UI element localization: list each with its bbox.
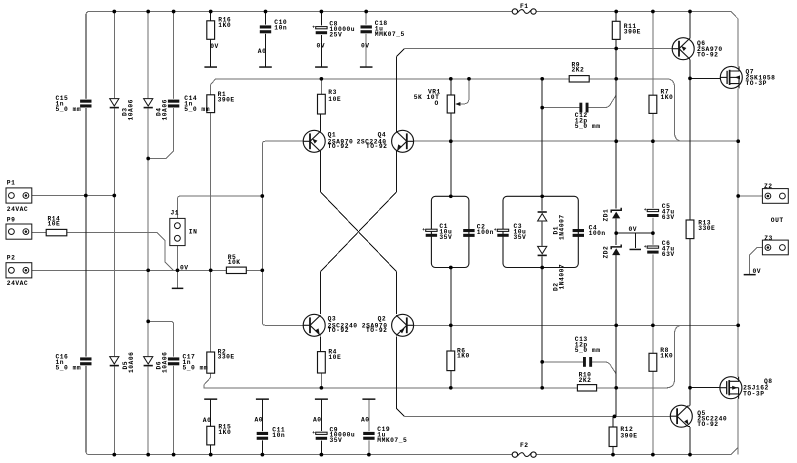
svg-text:100n: 100n	[477, 229, 494, 236]
svg-text:1K0: 1K0	[218, 429, 231, 436]
svg-text:R3: R3	[328, 89, 337, 96]
svg-text:390E: 390E	[624, 28, 641, 35]
svg-text:IN: IN	[189, 229, 198, 236]
svg-text:+: +	[312, 25, 315, 30]
svg-text:ZD1: ZD1	[603, 209, 610, 222]
svg-text:0V: 0V	[317, 42, 326, 49]
svg-text:0V: 0V	[180, 264, 189, 271]
svg-text:A0: A0	[258, 48, 267, 55]
svg-text:5_0 mm: 5_0 mm	[575, 347, 601, 354]
svg-text:+: +	[422, 228, 425, 233]
svg-text:+: +	[494, 228, 497, 233]
svg-text:J1: J1	[171, 209, 180, 216]
svg-text:ZD2: ZD2	[603, 246, 610, 259]
svg-text:10K: 10K	[228, 259, 241, 266]
svg-text:10A06: 10A06	[128, 352, 135, 373]
svg-text:35V: 35V	[330, 437, 343, 444]
svg-text:2K2: 2K2	[572, 67, 585, 74]
svg-text:A0: A0	[313, 416, 322, 423]
svg-text:330E: 330E	[698, 225, 715, 232]
svg-text:TO-92: TO-92	[328, 327, 349, 334]
svg-text:330E: 330E	[218, 354, 235, 361]
svg-text:O: O	[435, 100, 439, 107]
svg-text:1K0: 1K0	[661, 94, 674, 101]
svg-text:TO-92: TO-92	[328, 143, 349, 150]
svg-text:P2: P2	[7, 255, 16, 262]
svg-text:OUT: OUT	[771, 217, 784, 224]
svg-text:MMK07_5: MMK07_5	[375, 31, 405, 38]
svg-text:1K0: 1K0	[218, 22, 231, 29]
svg-text:1K0: 1K0	[457, 353, 470, 360]
svg-text:390E: 390E	[218, 97, 235, 104]
svg-text:10A06: 10A06	[162, 99, 169, 120]
svg-text:10E: 10E	[328, 354, 341, 361]
svg-text:10A06: 10A06	[162, 352, 169, 373]
svg-text:Z2: Z2	[764, 183, 773, 190]
svg-text:P1: P1	[7, 180, 16, 187]
svg-text:Z3: Z3	[764, 235, 773, 242]
svg-text:10A06: 10A06	[128, 99, 135, 120]
svg-text:5_0 mm: 5_0 mm	[56, 364, 82, 371]
svg-text:24VAC: 24VAC	[7, 206, 28, 213]
svg-text:1N4007: 1N4007	[559, 214, 566, 240]
svg-text:A0: A0	[203, 417, 212, 424]
svg-text:35V: 35V	[514, 234, 527, 241]
svg-text:1N4007: 1N4007	[559, 264, 566, 290]
svg-text:+: +	[644, 208, 647, 213]
svg-text:25V: 25V	[329, 32, 342, 39]
svg-text:A0: A0	[361, 416, 370, 423]
svg-text:+: +	[644, 245, 647, 250]
svg-text:10n: 10n	[274, 24, 287, 31]
svg-text:TO-92: TO-92	[697, 421, 718, 428]
svg-text:5_0 mm: 5_0 mm	[56, 106, 82, 113]
svg-text:100n: 100n	[589, 230, 606, 237]
svg-text:390E: 390E	[620, 432, 637, 439]
svg-text:5_0 mm: 5_0 mm	[575, 123, 601, 130]
svg-text:10n: 10n	[272, 432, 285, 439]
svg-text:P9: P9	[7, 216, 16, 223]
svg-text:TO-3P: TO-3P	[743, 390, 764, 397]
svg-text:5_0 mm: 5_0 mm	[183, 364, 209, 371]
svg-text:MMK07_5: MMK07_5	[377, 437, 407, 444]
svg-text:0V: 0V	[753, 268, 762, 275]
svg-text:TO-92: TO-92	[697, 52, 718, 59]
svg-text:TO-3P: TO-3P	[746, 80, 767, 87]
svg-text:35V: 35V	[439, 234, 452, 241]
svg-text:TO-92: TO-92	[366, 327, 387, 334]
svg-text:63V: 63V	[662, 214, 675, 221]
svg-text:0V: 0V	[629, 226, 638, 233]
svg-text:24VAC: 24VAC	[7, 280, 28, 287]
svg-text:10E: 10E	[328, 96, 341, 103]
svg-text:F2: F2	[520, 442, 529, 449]
svg-text:TO-92: TO-92	[366, 143, 387, 150]
svg-text:10E: 10E	[48, 221, 61, 228]
svg-text:1K0: 1K0	[660, 352, 673, 359]
svg-text:63V: 63V	[662, 251, 675, 258]
svg-text:F1: F1	[520, 3, 529, 10]
svg-text:A0: A0	[255, 416, 264, 423]
svg-text:0V: 0V	[361, 42, 370, 49]
svg-text:5_0 mm: 5_0 mm	[184, 106, 210, 113]
svg-text:0V: 0V	[210, 43, 219, 50]
svg-text:+: +	[312, 431, 315, 436]
svg-text:2K2: 2K2	[579, 377, 592, 384]
